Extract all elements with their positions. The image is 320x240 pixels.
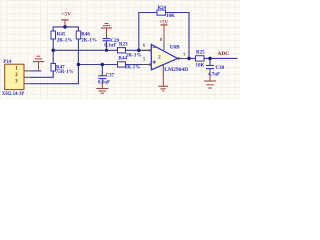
svg-text:U6B: U6B: [170, 44, 180, 50]
svg-text:R46: R46: [81, 32, 90, 37]
svg-text:0.1uF: 0.1uF: [104, 44, 116, 49]
svg-text:R24: R24: [158, 6, 167, 11]
svg-text:5: 5: [143, 56, 145, 61]
svg-text:10K: 10K: [166, 14, 175, 19]
svg-text:7: 7: [183, 52, 185, 57]
svg-text:+5V: +5V: [159, 21, 168, 26]
svg-text:2K-1%: 2K-1%: [57, 38, 73, 43]
svg-text:C37: C37: [106, 73, 115, 78]
svg-text:8: 8: [160, 37, 162, 42]
svg-text:R45: R45: [57, 32, 66, 37]
svg-text:R44: R44: [118, 56, 127, 61]
svg-text:2K-1%: 2K-1%: [81, 38, 97, 43]
svg-text:4.7uF: 4.7uF: [208, 73, 220, 78]
svg-text:75R-1%: 75R-1%: [56, 70, 74, 75]
svg-text:0.1uF: 0.1uF: [98, 80, 110, 85]
svg-text:1K-1%: 1K-1%: [125, 66, 141, 71]
svg-text:R23: R23: [119, 42, 128, 47]
svg-text:LM2904D: LM2904D: [164, 67, 188, 73]
svg-text:P14: P14: [3, 60, 12, 65]
svg-text:+5V: +5V: [61, 11, 71, 17]
svg-text:10K: 10K: [196, 63, 205, 68]
svg-text:R25: R25: [196, 51, 205, 56]
svg-text:6: 6: [143, 42, 145, 47]
svg-text:1K-1%: 1K-1%: [126, 54, 142, 59]
svg-text:XH2.54-3P: XH2.54-3P: [2, 92, 25, 97]
svg-text:C30: C30: [216, 66, 225, 71]
svg-text:ADC: ADC: [218, 51, 230, 57]
